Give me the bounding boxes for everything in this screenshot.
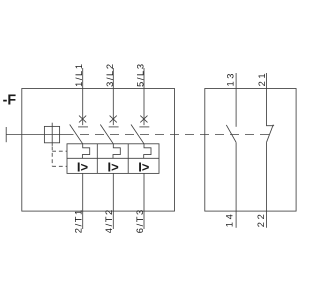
mechanical link dashed xyxy=(80,134,269,136)
dashed trip link vertical xyxy=(51,147,53,167)
svg-text:-F: -F xyxy=(3,92,17,108)
manual operator handle xyxy=(5,127,7,142)
svg-text:I>: I> xyxy=(77,160,89,175)
aux NO contact 13 terminal xyxy=(235,73,237,127)
svg-text:2/T1: 2/T1 xyxy=(74,208,84,233)
svg-text:6/T3: 6/T3 xyxy=(135,208,145,233)
pole L2 thermal element xyxy=(113,144,120,159)
svg-text:I>: I> xyxy=(108,160,120,175)
svg-text:1/L1: 1/L1 xyxy=(74,62,84,87)
svg-text:4/T2: 4/T2 xyxy=(104,208,114,233)
svg-text:14: 14 xyxy=(225,212,235,228)
pole L3 breaker cross xyxy=(140,116,147,123)
trip mechanism square xyxy=(44,126,59,142)
svg-text:21: 21 xyxy=(257,71,267,87)
pole L3 contact blade xyxy=(131,125,144,144)
pole L1 fixed contact tick xyxy=(78,126,88,128)
overload relay box xyxy=(67,144,159,174)
breaker F1 outline xyxy=(22,89,175,212)
svg-text:5/L3: 5/L3 xyxy=(136,62,146,87)
aux NO contact 14 terminal xyxy=(235,142,237,228)
pole L1 breaker cross xyxy=(79,116,86,123)
aux NC contact 21 terminal with seat xyxy=(267,73,275,126)
pole L3 thermal element xyxy=(144,144,151,159)
pole L2 terminal line 3/L2 xyxy=(112,68,114,125)
dashed trip link to magnetic row xyxy=(52,165,67,167)
aux NC contact blade xyxy=(267,125,274,143)
pole L1 output line 2/T1 xyxy=(82,173,84,229)
pole L3 fixed contact tick xyxy=(139,126,149,128)
svg-text:3/L2: 3/L2 xyxy=(105,62,115,87)
pole L1 contact blade xyxy=(70,125,83,144)
wire operator link xyxy=(6,134,73,136)
pole L3 output line 6/T3 xyxy=(143,173,145,229)
pole L2 output line 4/T2 xyxy=(112,173,114,229)
aux NO contact blade xyxy=(226,125,236,142)
pole L2 contact blade xyxy=(100,125,113,144)
svg-text:22: 22 xyxy=(256,212,266,228)
pole L1 thermal element xyxy=(82,144,89,159)
overload column divider 2 xyxy=(127,144,129,174)
dashed trip link to thermal row xyxy=(52,150,67,152)
pole L2 fixed contact tick xyxy=(109,126,119,128)
pole L2 breaker cross xyxy=(110,116,117,123)
aux contact block outline xyxy=(205,89,296,212)
svg-text:I>: I> xyxy=(138,160,150,175)
pole L3 terminal line 5/L3 xyxy=(143,68,145,125)
aux NC contact 22 terminal xyxy=(266,142,268,228)
overload column divider 1 xyxy=(96,144,98,174)
trip mechanism axis xyxy=(51,123,53,146)
pole L1 terminal line 1/L1 xyxy=(82,68,84,125)
overload row divider xyxy=(67,157,159,159)
svg-text:13: 13 xyxy=(225,71,235,87)
